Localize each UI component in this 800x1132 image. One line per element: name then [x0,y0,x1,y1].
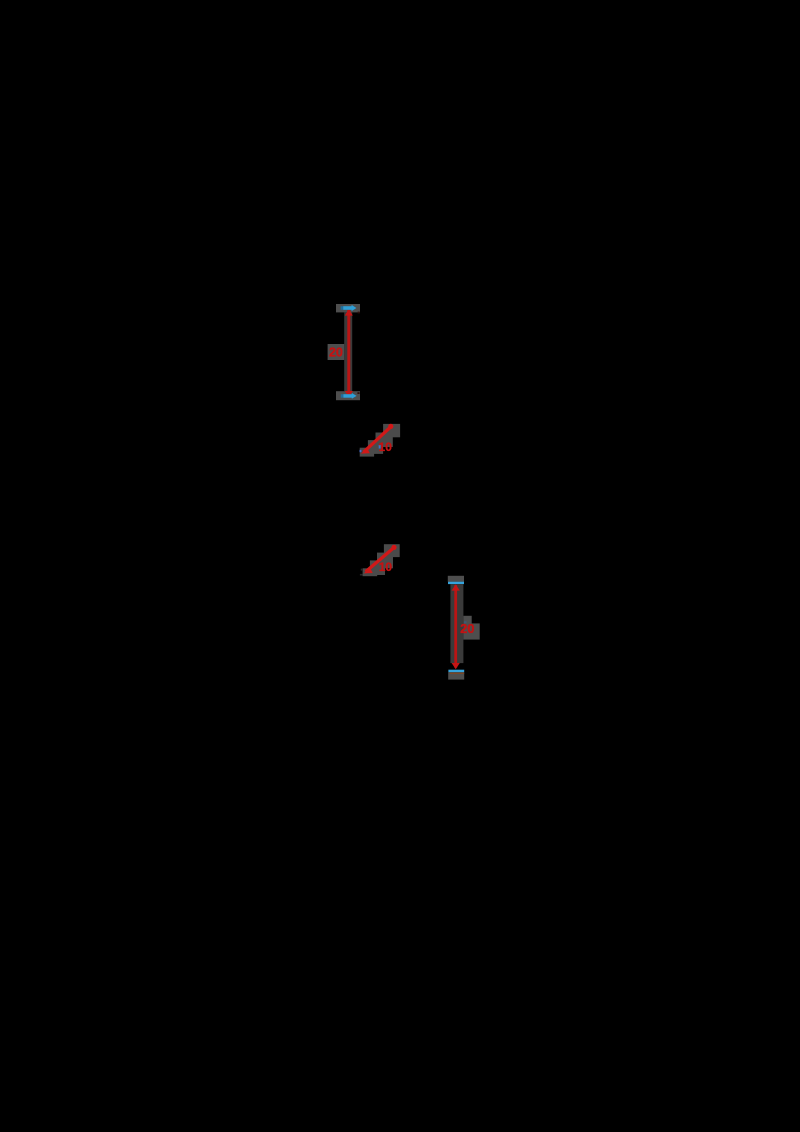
blue snap tick T1 (at D2 arrowhead) [360,450,362,452]
dark snap tick T3 (below D3 arrowhead) [360,574,363,576]
geometry edge G1 (dark red/brown line under E4) [450,673,464,674]
highlight box H4 (bottom endpoint of dimension D1) [336,391,360,400]
dimension D4 line (vertical, value 20) [454,585,457,668]
highlight staircase H6 (dimension D3) [363,544,400,576]
highlight box H1 (top endpoint of dimension D1) [336,304,360,312]
dark snap tick T2 (at D3 arrowhead) [361,569,363,571]
svg-text:10: 10 [379,560,393,574]
highlight box H7 (top endpoint of dimension D4) [448,576,464,582]
highlight box H3 (label box of dimension D1) [328,344,345,360]
svg-text:20: 20 [329,346,343,360]
dimension D4 top arrowhead [452,584,460,590]
svg-text:10: 10 [379,440,393,454]
blue edge marker E4 (bottom of dimension D4) [448,670,464,672]
highlight box H9 (label box of dimension D4, stepped) [463,616,479,640]
dimension D2 end dot (upper right) [388,424,393,429]
dimension D4 bottom arrowhead [452,663,460,669]
geometry speck S1 (right of D1 top box) [358,312,360,314]
dimension D1 line (vertical, value 20) [347,310,350,397]
geometry speck S2 (right of D1 bottom box) [357,392,359,394]
blue edge marker E3 (top of dimension D4) [448,582,464,584]
dimension D3 line (diagonal, value 10) [366,548,394,572]
dimension D2 arrowhead (lower left) [361,448,370,454]
blue snap tick T4 (left of D2 label) [379,445,381,449]
dimension D2 line (diagonal, value 10) [364,427,391,452]
dimension D3 end dot (upper right) [391,545,396,550]
dimension D1 bottom arrowhead [345,391,353,397]
dimension D3 arrowhead (lower left) [364,567,373,573]
highlight band H8 (line halo of dimension D4) [450,584,463,663]
blue caret tick T5 (left of D4 label) [464,621,467,623]
highlight box H10 (bottom endpoint of dimension D4) [448,672,464,680]
blue edge marker E1 (top of dimension D1, arrow pointing right) [341,305,357,311]
highlight band H2 (line halo of dimension D1) [344,312,352,391]
highlight staircase H5 (dimension D2) [360,424,400,457]
svg-text:20: 20 [460,621,474,636]
blue edge marker E2 (bottom of dimension D1, arrow pointing right) [341,393,357,399]
dimension D1 top arrowhead [345,309,353,316]
